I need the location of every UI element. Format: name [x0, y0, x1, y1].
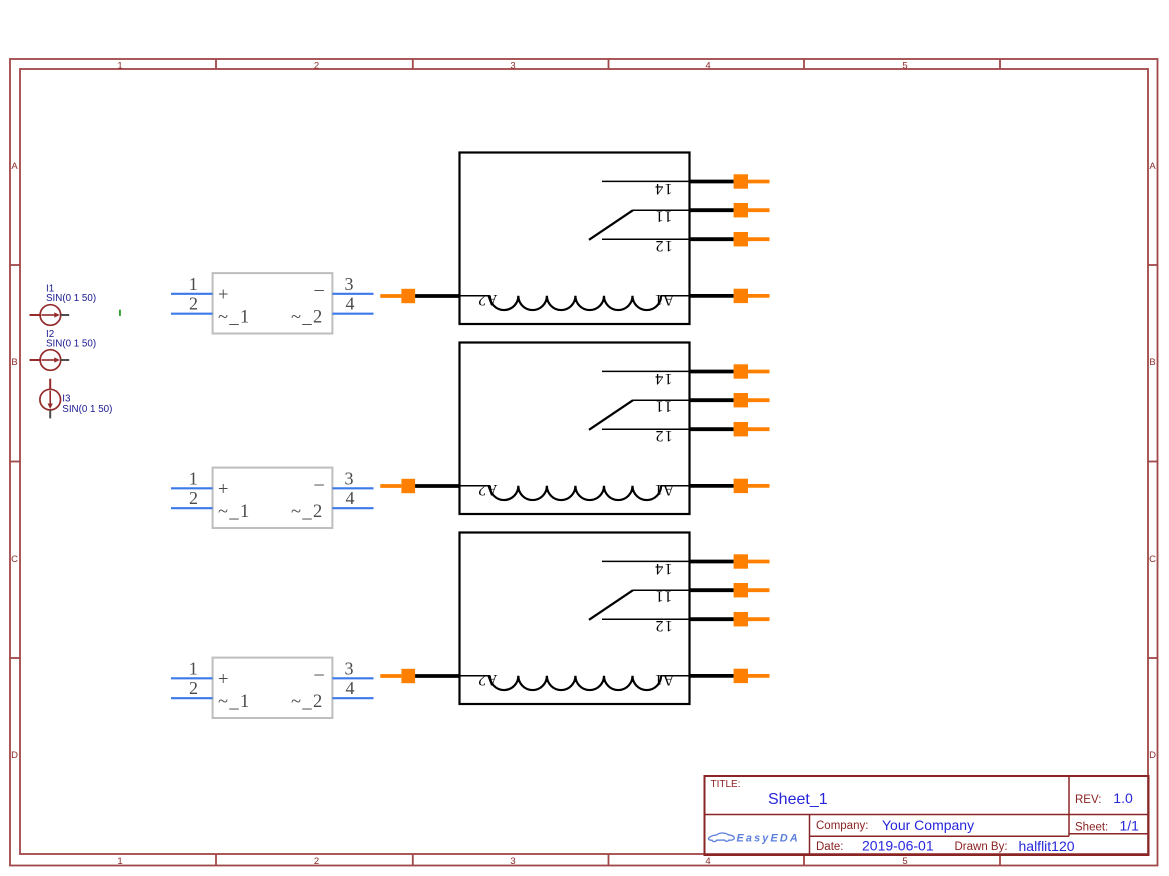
- svg-text:4: 4: [705, 61, 710, 72]
- svg-text:Drawn By:: Drawn By:: [955, 841, 1008, 853]
- svg-text:Your Company: Your Company: [882, 817, 974, 833]
- svg-text:C: C: [11, 554, 18, 565]
- svg-text:Company:: Company:: [816, 820, 868, 832]
- svg-text:1.0: 1.0: [1113, 790, 1133, 806]
- svg-text:C: C: [1149, 554, 1156, 565]
- svg-text:B: B: [1149, 357, 1155, 368]
- svg-text:A: A: [11, 161, 18, 172]
- svg-text:Sheet:: Sheet:: [1075, 822, 1108, 834]
- svg-text:5: 5: [902, 61, 907, 72]
- svg-text:2019-06-01: 2019-06-01: [862, 838, 934, 854]
- svg-text:halflit120: halflit120: [1019, 838, 1075, 854]
- svg-text:I3: I3: [62, 394, 71, 405]
- svg-text:2: 2: [314, 856, 319, 867]
- svg-text:Date:: Date:: [816, 841, 844, 853]
- svg-text:D: D: [11, 750, 18, 761]
- svg-text:1: 1: [117, 856, 122, 867]
- svg-text:A: A: [1149, 161, 1156, 172]
- svg-text:1: 1: [117, 61, 122, 72]
- svg-text:B: B: [11, 357, 17, 368]
- svg-text:EasyEDA: EasyEDA: [737, 832, 800, 844]
- svg-text:TITLE:: TITLE:: [711, 779, 741, 790]
- svg-text:2: 2: [314, 61, 319, 72]
- svg-text:5: 5: [902, 856, 907, 867]
- svg-text:1/1: 1/1: [1120, 818, 1140, 834]
- svg-text:Sheet_1: Sheet_1: [768, 791, 828, 808]
- svg-text:SIN(0 1 50): SIN(0 1 50): [46, 339, 96, 350]
- svg-text:SIN(0 1 50): SIN(0 1 50): [62, 404, 112, 415]
- svg-text:4: 4: [705, 856, 710, 867]
- svg-text:SIN(0 1 50): SIN(0 1 50): [46, 293, 96, 304]
- svg-text:3: 3: [510, 856, 515, 867]
- svg-text:D: D: [1149, 750, 1156, 761]
- svg-text:REV:: REV:: [1075, 794, 1101, 806]
- svg-text:3: 3: [510, 61, 515, 72]
